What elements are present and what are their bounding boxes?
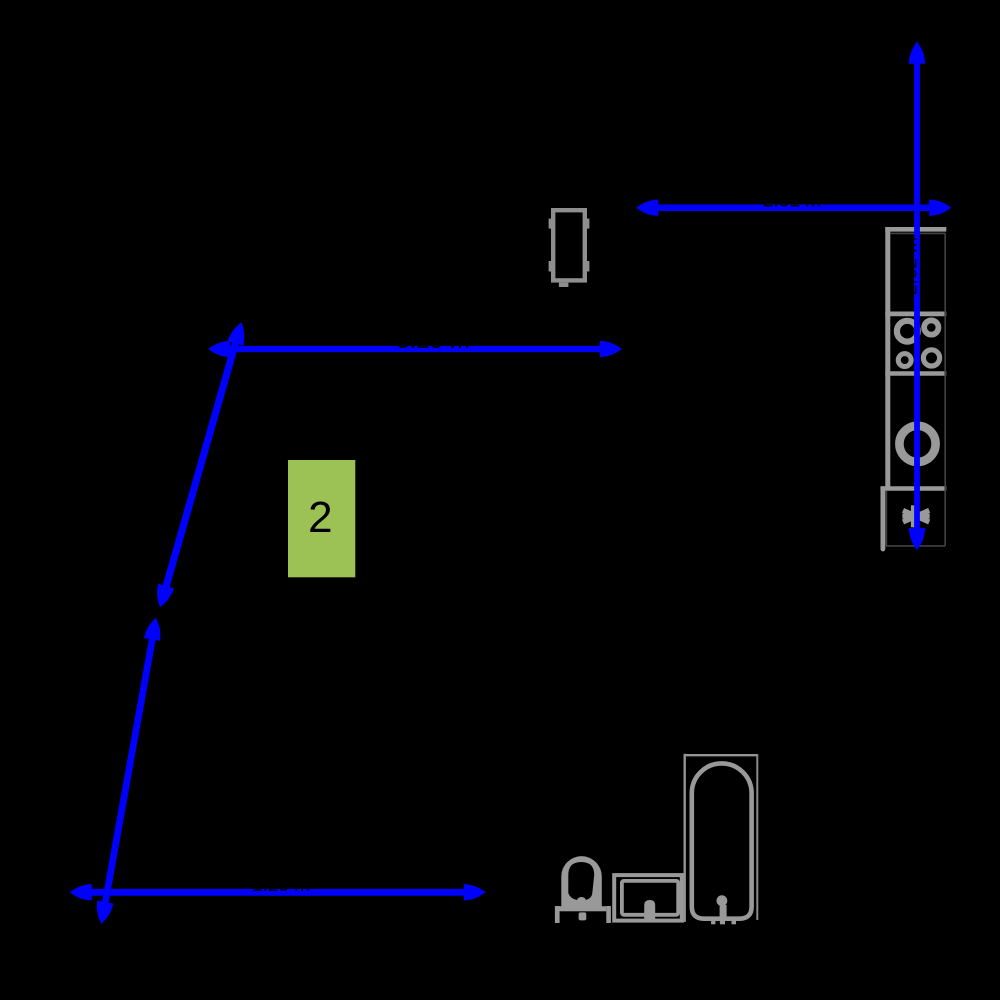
dimension arrow E slanted shaft [165, 339, 237, 590]
toilet tank right wall [606, 906, 611, 923]
kitchen divider 3 [880, 486, 946, 490]
arrow A bottom head [909, 528, 925, 550]
toilet flush button [579, 912, 587, 920]
bathroom sink inner rect [622, 881, 678, 915]
dimension arrow B horizontal shaft [654, 204, 934, 211]
arrow A top head [909, 42, 925, 64]
svg-text:2: 2 [308, 493, 332, 542]
svg-text:2.62 m: 2.62 m [900, 237, 921, 295]
kitchen counter top bar [885, 227, 946, 232]
arrow F bottom head [93, 901, 113, 926]
kitchen divider 1 [885, 311, 946, 316]
radiator outline [553, 210, 585, 280]
arrow E top head [228, 320, 250, 346]
burner bottom-right [923, 350, 939, 366]
arrow F top head [144, 616, 164, 641]
fridge snowflake [902, 505, 929, 527]
toilet tank left wall [555, 906, 560, 923]
kitchen sink ring [899, 426, 935, 462]
bathtub capsule [692, 763, 752, 918]
dimension arrow A vertical shaft [914, 58, 920, 534]
bathtub enclosure right wall [756, 754, 758, 920]
arrow D right head [464, 884, 486, 900]
burner top-right [924, 320, 938, 334]
arrow B left head [636, 200, 658, 216]
bathtub feet [711, 920, 736, 925]
arrow B right head [929, 200, 951, 216]
bathroom sink outer rect [614, 875, 682, 921]
room 2 green rectangle [288, 460, 355, 577]
dimension arrow C horizontal shaft [226, 346, 604, 352]
svg-text:3.25 m: 3.25 m [396, 327, 469, 354]
bathtub drain stem [720, 905, 727, 918]
dimension arrow D horizontal shaft [88, 889, 469, 896]
svg-text:2.31 m: 2.31 m [763, 191, 821, 212]
arrow C left head [208, 341, 230, 357]
fridge thin dark inner left line [885, 491, 887, 546]
bathroom sink faucet [644, 900, 655, 920]
kitchen divider 2 [885, 371, 946, 376]
radiator stubs [549, 219, 590, 287]
bathtub drain head [717, 895, 728, 906]
svg-text:1.25 m: 1.25 m [252, 875, 310, 896]
toilet bowl inner [568, 862, 594, 900]
burner bottom-left [898, 354, 911, 367]
burner top-left [897, 321, 918, 342]
arrow E bottom head [152, 584, 174, 610]
toilet bowl outer [561, 856, 602, 909]
dimension arrow F slanted shaft [105, 637, 153, 904]
arrow C right head [600, 341, 622, 357]
toilet tank bar [556, 906, 606, 911]
toilet siphon bump [577, 897, 586, 904]
kitchen counter left bar [880, 227, 946, 489]
kitchen thin dark right edge [886, 233, 945, 546]
kitchen thin dark top inner line [891, 232, 946, 234]
fridge left bar [881, 489, 886, 550]
kitchen thin dark bottom line [886, 545, 945, 547]
arrow D left head [70, 884, 92, 900]
bathtub enclosure left wall [684, 754, 686, 922]
bathtub enclosure top wall [684, 754, 758, 756]
